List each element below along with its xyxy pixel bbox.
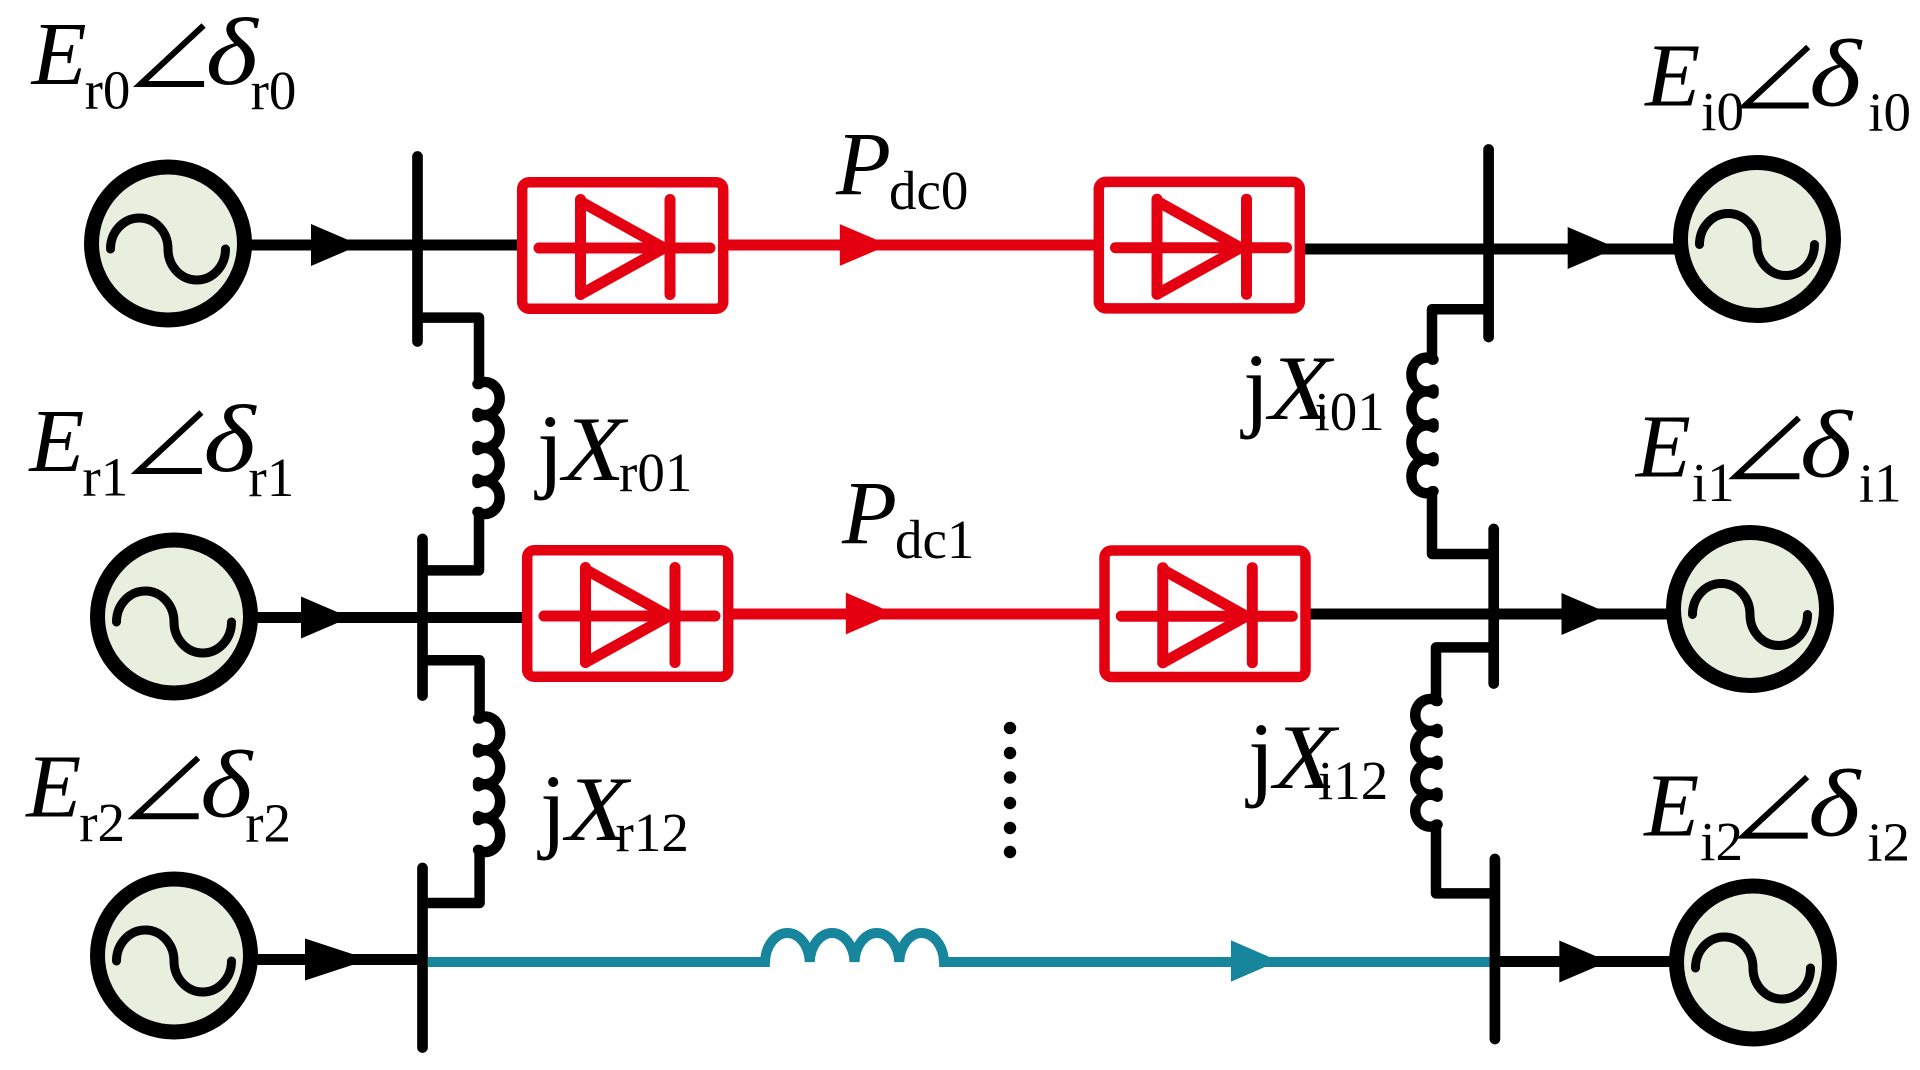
arrow on wire Er2-busL2 — [305, 939, 369, 981]
svg-text:i2: i2 — [1867, 812, 1910, 873]
svg-text:r0: r0 — [85, 60, 131, 121]
svg-text:i0: i0 — [1701, 81, 1744, 142]
AC source Ei0 — [1681, 163, 1834, 316]
label Ei0 angle deltai0 — [1643, 21, 1911, 143]
label jXi12 — [1245, 703, 1388, 811]
svg-text:j: j — [1245, 703, 1274, 809]
svg-text:E: E — [1643, 27, 1700, 126]
svg-text:δ: δ — [1808, 751, 1862, 857]
wire box to bus R0 and source Ei0 — [1303, 244, 1682, 255]
arrow on wire busR0-Ei0 — [1568, 227, 1617, 269]
wire bus R2 to source Ei2 — [1495, 956, 1678, 967]
label Pdc1 — [841, 464, 974, 570]
red DC line 1 — [731, 609, 1101, 620]
diode inside inverter 0 — [1116, 199, 1287, 294]
label Er1 angle deltar1 — [27, 386, 294, 508]
svg-text:E: E — [24, 737, 81, 836]
AC source Ei2 — [1677, 886, 1830, 1039]
AC source Ei1 — [1674, 533, 1827, 686]
label Er0 angle deltar0 — [30, 0, 297, 121]
svg-text:P: P — [841, 464, 897, 563]
red DC line 0 — [726, 240, 1096, 251]
label Ei2 angle deltai2 — [1642, 751, 1910, 873]
converter box inverter 1 — [1105, 551, 1306, 678]
converter box inverter 0 — [1099, 182, 1300, 309]
converter box rectifier 0 — [522, 182, 723, 309]
inductor jXi12 between right buses 1,2 — [1415, 647, 1492, 893]
svg-text:P: P — [835, 115, 891, 214]
AC source Er1 — [98, 540, 251, 693]
wire Er2 to bus L2 — [252, 954, 423, 965]
svg-text:i1: i1 — [1859, 452, 1902, 513]
diode inside rectifier 0 — [539, 200, 710, 295]
arrow on wire busR1-Ei1 — [1562, 593, 1611, 635]
svg-text:j: j — [1240, 334, 1269, 440]
wire Er1 to bus L1 — [252, 612, 524, 623]
svg-text:r12: r12 — [616, 802, 689, 863]
svg-text:r01: r01 — [619, 442, 692, 503]
inductor jXr01 between left buses 0,1 — [421, 318, 500, 571]
red arrow DC line 1 — [846, 593, 895, 635]
AC source Er2 — [98, 879, 251, 1032]
label Ei1 angle deltai1 — [1634, 391, 1902, 513]
teal AC tie line with inductor — [428, 933, 1490, 962]
bus inverter 1 (right) — [1488, 529, 1499, 684]
wire box to bus R1 and source Ei1 — [1310, 609, 1675, 620]
inductor jXi01 between right buses 0,1 — [1411, 309, 1491, 554]
bus rectifier 2 (left) — [417, 868, 428, 1048]
svg-text:i0: i0 — [1868, 82, 1911, 143]
svg-text:r2: r2 — [79, 792, 125, 853]
svg-text:r1: r1 — [82, 447, 128, 508]
arrow on wire Er0-busL0 — [311, 224, 360, 266]
svg-text:E: E — [27, 392, 84, 491]
label jXr12 — [537, 755, 689, 863]
red arrow DC line 0 — [840, 224, 889, 266]
AC source Er0 — [92, 167, 245, 320]
svg-text:i2: i2 — [1700, 811, 1743, 872]
svg-text:j: j — [537, 755, 566, 861]
inductor jXr12 between left buses 1,2 — [426, 660, 500, 903]
bus rectifier 1 (left) — [417, 539, 428, 696]
arrow on wire busR2-Ei2 — [1559, 941, 1608, 983]
label jXr01 — [534, 395, 692, 503]
svg-text:r2: r2 — [245, 792, 291, 853]
svg-text:E: E — [1642, 757, 1699, 856]
svg-text:i12: i12 — [1318, 750, 1388, 811]
arrow on wire Er1-busL1 — [301, 597, 350, 639]
svg-text:r0: r0 — [251, 60, 297, 121]
svg-text:E: E — [1634, 397, 1691, 496]
svg-text:δ: δ — [1800, 391, 1854, 497]
wire Er0 to bus L0 — [246, 240, 517, 251]
label jXi01 — [1240, 334, 1385, 442]
svg-text:E: E — [30, 5, 87, 104]
bus inverter 2 (right) — [1490, 859, 1501, 1039]
svg-text:i01: i01 — [1315, 381, 1385, 442]
svg-text:dc1: dc1 — [895, 509, 974, 570]
bus rectifier 0 (left) — [412, 157, 423, 342]
svg-text:r1: r1 — [248, 447, 294, 508]
svg-text:i1: i1 — [1692, 452, 1735, 513]
svg-text:δ: δ — [1809, 21, 1863, 127]
teal arrow — [1231, 940, 1279, 982]
continuation dots — [1004, 722, 1016, 858]
label Pdc0 — [835, 115, 968, 221]
converter box rectifier 1 — [527, 550, 728, 677]
label Er2 angle deltar2 — [24, 731, 291, 853]
bus inverter 0 (right) — [1483, 150, 1494, 338]
svg-text:j: j — [534, 395, 563, 501]
diode inside inverter 1 — [1121, 568, 1292, 663]
svg-text:dc0: dc0 — [889, 160, 968, 221]
diode inside rectifier 1 — [544, 568, 715, 663]
